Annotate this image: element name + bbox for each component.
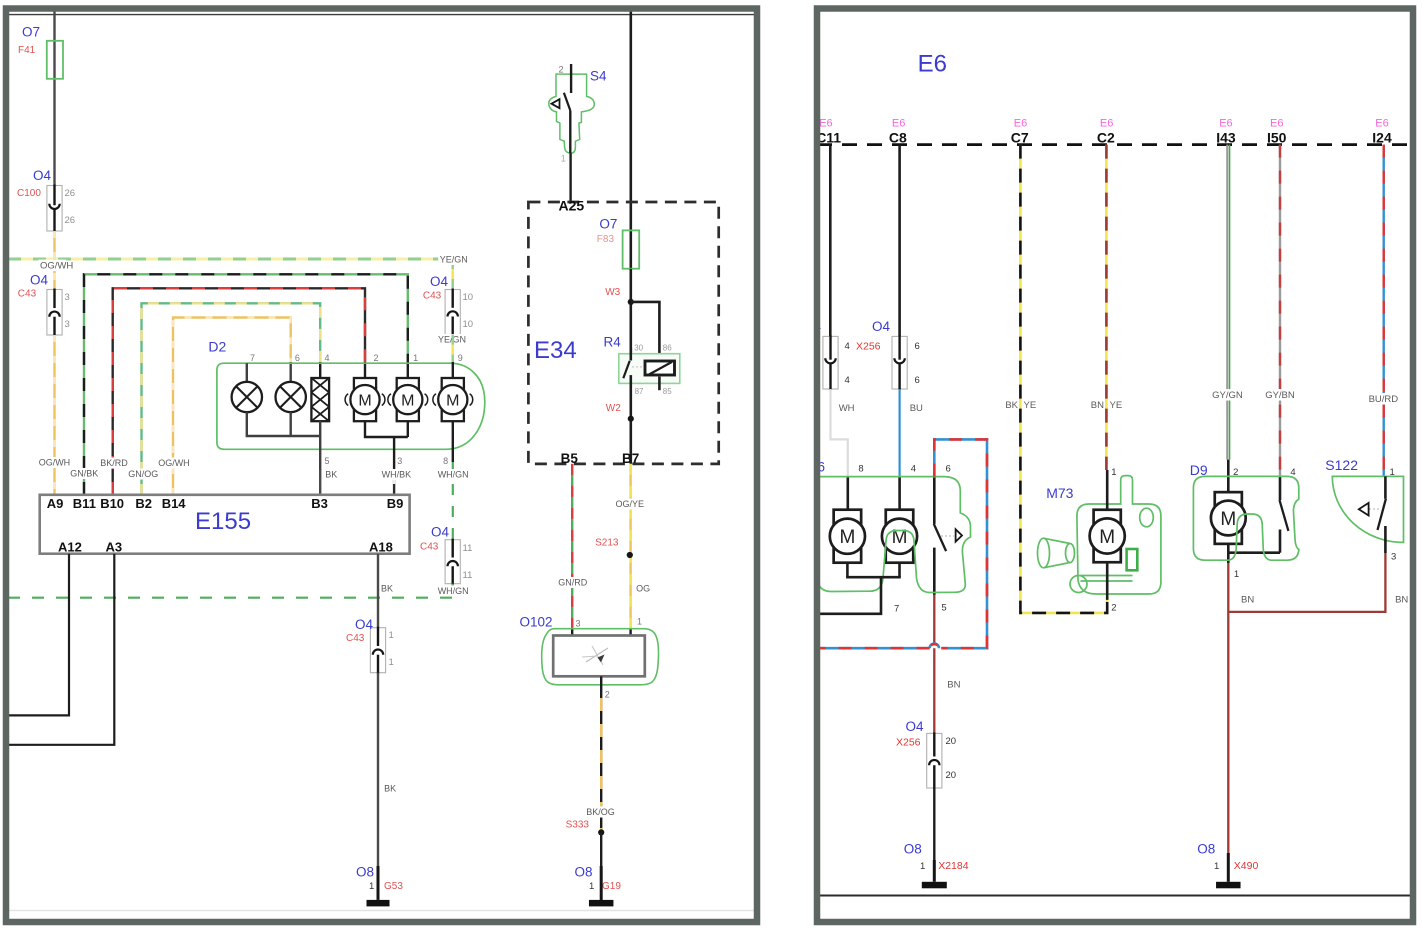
- wire A12 exit left: [8, 554, 69, 716]
- svg-text:C8: C8: [889, 130, 907, 146]
- svg-text:C43: C43: [420, 542, 439, 553]
- svg-text:GY/GN: GY/GN: [1212, 390, 1243, 401]
- svg-text:GY/BN: GY/BN: [1265, 390, 1295, 401]
- wire D2 pin 8 stub: [452, 421, 454, 462]
- switch S4 triangle marker: [552, 99, 560, 108]
- svg-text:B14: B14: [162, 496, 187, 511]
- svg-text:E6: E6: [1219, 118, 1232, 130]
- wire YE/GN corner down to connector O4 C43: [452, 259, 454, 290]
- wire WH/BK D2 pin3 to E155 B9: [393, 470, 395, 495]
- svg-text:M: M: [1099, 527, 1115, 548]
- svg-text:WH/GN: WH/GN: [438, 586, 469, 596]
- O102 pin 2 stub: [600, 676, 602, 698]
- relay switch contact: [629, 348, 632, 361]
- wire WH to comp pin 8: [831, 389, 848, 477]
- svg-text:O4: O4: [355, 617, 374, 632]
- svg-text:E6: E6: [1375, 118, 1388, 130]
- svg-text:B9: B9: [387, 496, 404, 511]
- svg-text:M73: M73: [1046, 485, 1073, 501]
- svg-text:1: 1: [389, 630, 394, 641]
- switch D9 pin 4: [1279, 476, 1282, 500]
- wire BN/YE C2 to M73 pin 1: [1105, 145, 1108, 470]
- component D2 green outline: [217, 363, 485, 449]
- svg-text:BN: BN: [947, 680, 960, 691]
- svg-text:6: 6: [295, 353, 300, 363]
- svg-text:GN/OG: GN/OG: [128, 469, 158, 479]
- svg-text:20: 20: [946, 736, 957, 747]
- svg-text:GN/BK: GN/BK: [70, 469, 98, 479]
- node W2 junction: [628, 416, 634, 422]
- svg-text:6: 6: [915, 375, 920, 386]
- wire 87 to junction W2 and B7: [629, 390, 632, 464]
- wire WH/GN connector to horizontal dashed: [452, 584, 454, 598]
- svg-text:6: 6: [946, 464, 951, 475]
- wire BK stub pin 8: [846, 477, 849, 510]
- connector O4 C43 pins 11/11: [445, 540, 460, 584]
- svg-text:85: 85: [663, 387, 672, 396]
- node S213 junction: [627, 552, 633, 558]
- wire BK to ground X2184: [933, 788, 935, 862]
- svg-text:M: M: [446, 392, 459, 409]
- motor D2 pin 2: [354, 378, 376, 421]
- wire OG/WH vertical C43 to E155 pin A9: [53, 335, 55, 495]
- connector O4 X256 pins 4/4 (left, clipped): [823, 336, 838, 389]
- svg-text:5: 5: [941, 603, 946, 614]
- svg-text:OG: OG: [636, 584, 650, 594]
- svg-text:X490: X490: [1234, 860, 1259, 872]
- wire BU/RD I24 to S122 pin 1: [1382, 145, 1384, 477]
- wire BK/OG O102 pin2 down: [600, 698, 602, 832]
- svg-text:B2: B2: [135, 496, 152, 511]
- svg-text:8: 8: [443, 456, 448, 466]
- svg-text:S122: S122: [1325, 457, 1358, 473]
- svg-text:1: 1: [589, 881, 594, 892]
- svg-text:BN: BN: [1241, 595, 1254, 606]
- svg-text:1: 1: [1111, 467, 1116, 478]
- connector O4 X256 pins 20/20: [927, 733, 942, 788]
- fuse O7 F41: [47, 41, 63, 79]
- svg-text:BK: BK: [384, 784, 396, 794]
- svg-text:YE: YE: [1024, 400, 1037, 411]
- svg-text:86: 86: [663, 344, 672, 353]
- switch arrow marker: [941, 535, 954, 537]
- svg-text:YE: YE: [1110, 400, 1123, 411]
- svg-text:M: M: [839, 527, 855, 548]
- svg-text:O4: O4: [430, 274, 449, 289]
- svg-text:I50: I50: [1267, 130, 1287, 146]
- wire OG/YE B7 to O102 pin 1: [629, 464, 631, 629]
- wire BN S122 pin3 joins D9 BN: [1228, 553, 1385, 612]
- svg-text:4: 4: [911, 464, 916, 475]
- svg-text:2: 2: [605, 690, 610, 700]
- svg-text:87: 87: [635, 387, 644, 396]
- svg-text:A25: A25: [559, 198, 585, 214]
- svg-text:C7: C7: [1011, 130, 1029, 146]
- component O102 cigarette lighter: [542, 629, 659, 685]
- svg-text:B11: B11: [73, 496, 96, 511]
- switch S4 green outline: [549, 74, 595, 153]
- wire BU/RD dashed loop around D16: [934, 439, 987, 648]
- switch S122 outline quarter disc: [1332, 476, 1403, 542]
- component D16 outline on top: [814, 477, 971, 593]
- svg-text:20: 20: [946, 770, 957, 781]
- lamp D2 pin 6: [276, 382, 306, 412]
- wire branch to relay coil 86: [631, 302, 660, 361]
- svg-text:O8: O8: [1197, 842, 1215, 857]
- svg-text:WH/BK: WH/BK: [382, 470, 412, 480]
- wire BK C8 down: [898, 145, 901, 337]
- svg-text:O4: O4: [872, 319, 891, 334]
- svg-text:WH: WH: [839, 403, 855, 414]
- svg-text:2: 2: [559, 65, 564, 75]
- svg-text:BU: BU: [910, 403, 923, 414]
- svg-text:B10: B10: [100, 496, 124, 511]
- svg-text:O4: O4: [906, 719, 925, 734]
- wire S4 pin1 to A25: [569, 153, 571, 202]
- svg-text:X256: X256: [856, 341, 881, 353]
- relay coil: [645, 361, 675, 375]
- wire OG/WH vertical x=54.5 C100 to C43: [53, 231, 55, 290]
- svg-text:B3: B3: [311, 496, 328, 511]
- svg-text:YE/GN: YE/GN: [440, 255, 468, 265]
- svg-text:E6: E6: [1270, 118, 1283, 130]
- svg-text:S4: S4: [590, 69, 607, 84]
- svg-text:A12: A12: [58, 540, 82, 555]
- wire: left panel inner top border line: [8, 14, 754, 16]
- svg-text:C43: C43: [346, 633, 365, 644]
- wire D2 lamp/resistor bottom bus to pin 5: [247, 412, 320, 436]
- svg-text:1: 1: [1390, 467, 1395, 478]
- wire GN/OG B2 loop to D2 pin 4: [142, 303, 321, 495]
- svg-text:F83: F83: [597, 234, 615, 245]
- ECU box E155: [40, 495, 410, 554]
- svg-text:3: 3: [576, 619, 581, 629]
- svg-text:E6: E6: [819, 118, 832, 130]
- connector O4 X256 pins 6/6: [892, 336, 907, 389]
- svg-text:S213: S213: [595, 538, 619, 549]
- svg-text:OG/WH: OG/WH: [39, 458, 70, 468]
- svg-text:F41: F41: [18, 45, 36, 56]
- connector O4 C43 pins 10/10: [445, 290, 460, 335]
- svg-text:D2: D2: [208, 339, 226, 355]
- svg-text:26: 26: [65, 215, 76, 226]
- switch S122 contacts: [1384, 476, 1387, 498]
- svg-text:4: 4: [845, 375, 850, 386]
- svg-text:1: 1: [561, 154, 566, 164]
- motor D9: [1227, 460, 1230, 492]
- svg-text:O8: O8: [356, 865, 374, 880]
- svg-text:8: 8: [858, 464, 863, 475]
- frame right panel: [817, 9, 1413, 923]
- label OG/WH: [39, 260, 67, 271]
- wire A3 exit left: [8, 554, 114, 745]
- svg-text:1: 1: [1234, 569, 1239, 580]
- wire BK/YE C7 to M73 pin 2: [1020, 145, 1107, 613]
- motor left in D16: [834, 510, 862, 563]
- svg-text:R4: R4: [604, 335, 622, 350]
- svg-text:M: M: [1220, 509, 1236, 530]
- svg-text:O7: O7: [22, 25, 40, 40]
- motor D2 pin 1: [397, 378, 419, 421]
- svg-text:10: 10: [463, 292, 474, 303]
- svg-text:O8: O8: [575, 865, 593, 880]
- svg-text:3: 3: [65, 319, 70, 330]
- wire motors bottom bus to pin 7 exit: [846, 563, 849, 578]
- svg-text:BN: BN: [1395, 595, 1408, 606]
- svg-text:9: 9: [458, 353, 463, 363]
- svg-text:E6: E6: [1100, 118, 1113, 130]
- svg-text:BK: BK: [381, 584, 393, 594]
- switch in D16 pin 6: [933, 477, 936, 524]
- wire BU/RD hop over BN: [930, 644, 939, 649]
- wire YE/GN connector to D2 pin 9: [452, 335, 454, 363]
- wire BK from top frame to connector C100: [53, 8, 55, 186]
- svg-text:6: 6: [915, 341, 920, 352]
- wire BK A18 down: [377, 554, 379, 628]
- wire BK main vertical from top frame: [629, 8, 632, 230]
- wire BK C11 down: [829, 145, 832, 337]
- wire GN/BK B11 loop to D2 pin 1: [84, 274, 408, 495]
- svg-text:BU/RD: BU/RD: [1369, 394, 1399, 405]
- wire: right panel inner bottom line: [820, 895, 1410, 897]
- svg-text:BK: BK: [1005, 400, 1018, 411]
- switch S122 triangle marker: [1369, 508, 1381, 510]
- svg-text:GN/RD: GN/RD: [558, 578, 588, 588]
- svg-text:3: 3: [1391, 552, 1396, 563]
- svg-text:BK/RD: BK/RD: [100, 458, 128, 468]
- wire BK A18 to ground: [377, 673, 379, 868]
- svg-text:M: M: [401, 392, 414, 409]
- wire GN/RD B5 to O102 pin 3: [571, 464, 573, 629]
- svg-text:BK/OG: BK/OG: [586, 807, 615, 817]
- wire BK/RD B10 loop to D2 pin 2: [113, 288, 365, 495]
- svg-text:1: 1: [413, 353, 418, 363]
- svg-text:O102: O102: [520, 615, 553, 630]
- svg-text:E6: E6: [1014, 118, 1027, 130]
- svg-text:7: 7: [894, 604, 899, 615]
- wire BU to comp pin 4: [898, 389, 900, 477]
- svg-text:G53: G53: [384, 881, 403, 892]
- svg-text:O4: O4: [431, 525, 450, 540]
- connector O4 C43 pins 1/1: [370, 628, 385, 673]
- svg-text:O7: O7: [599, 217, 617, 232]
- svg-text:C43: C43: [423, 291, 442, 302]
- connector O4 C43 pins 3/3: [47, 290, 62, 336]
- switch S4 contacts: [570, 64, 572, 93]
- svg-text:I24: I24: [1372, 130, 1392, 146]
- svg-text:BN: BN: [1091, 400, 1104, 411]
- wire fuse to junction W3: [629, 269, 632, 353]
- svg-text:B7: B7: [622, 451, 639, 466]
- svg-text:A3: A3: [106, 540, 123, 555]
- svg-text:C100: C100: [17, 188, 41, 199]
- svg-text:3: 3: [65, 292, 70, 303]
- svg-text:OG/WH: OG/WH: [158, 458, 190, 468]
- wire YE/GN horizontal bus y=259: [8, 258, 453, 261]
- svg-text:1: 1: [637, 617, 642, 627]
- svg-text:M: M: [358, 392, 371, 409]
- wire BK to ground G19: [600, 832, 602, 901]
- wire WH/GN pin8 to connector C43 11/11: [452, 462, 454, 540]
- wire GY/BN I50 to D9 pin 4: [1279, 145, 1281, 477]
- fuse O7 F83: [629, 230, 632, 269]
- wire BN pin 5 down: [933, 595, 935, 734]
- svg-text:W2: W2: [606, 403, 621, 414]
- svg-text:W3: W3: [605, 287, 620, 298]
- svg-text:E155: E155: [195, 508, 251, 535]
- connector O4 C100 pins 26/26: [47, 186, 62, 232]
- svg-text:S333: S333: [566, 820, 590, 831]
- wire coil 85 stub: [658, 377, 661, 391]
- svg-text:A9: A9: [47, 496, 64, 511]
- svg-text:C2: C2: [1097, 130, 1115, 146]
- relay linkage dotted: [632, 366, 644, 368]
- svg-text:5: 5: [325, 456, 330, 466]
- svg-text:O4: O4: [30, 273, 49, 288]
- svg-text:2: 2: [1111, 603, 1116, 614]
- svg-text:1: 1: [389, 657, 394, 668]
- svg-text:11: 11: [463, 543, 473, 554]
- svg-text:2: 2: [374, 353, 379, 363]
- wire D2 motor bottom bus to pin 3: [365, 421, 408, 437]
- resistor D2 pin 4: [311, 378, 329, 421]
- wire BN D9 pin1 down to ground: [1227, 563, 1229, 855]
- wire GY/GN I43 to D9 pin 2: [1226, 145, 1228, 460]
- svg-text:3: 3: [397, 456, 402, 466]
- svg-text:30: 30: [634, 344, 643, 353]
- svg-text:4: 4: [845, 341, 850, 352]
- svg-text:C43: C43: [18, 289, 37, 300]
- svg-text:G19: G19: [602, 881, 621, 892]
- wire D9 switch to motor bottom junction: [1228, 551, 1280, 554]
- wire: left panel inner bottom light line: [8, 910, 754, 912]
- svg-text:I43: I43: [1216, 130, 1236, 146]
- svg-text:7: 7: [250, 353, 255, 363]
- svg-text:X256: X256: [896, 737, 921, 749]
- svg-text:1: 1: [1214, 861, 1219, 872]
- svg-text:A18: A18: [369, 540, 393, 555]
- wire BK stub pin 4: [898, 477, 901, 510]
- svg-text:E6: E6: [892, 118, 905, 130]
- svg-text:11: 11: [463, 570, 473, 581]
- svg-text:E34: E34: [534, 337, 577, 364]
- wire BK D2 pin5 to E155 B3: [319, 470, 321, 495]
- wire WH/GN horizontal dashed y=597.7: [8, 597, 453, 599]
- motor D2 pin 9: [442, 378, 464, 421]
- svg-text:WH/GN: WH/GN: [438, 470, 469, 480]
- motor right in D16: [886, 510, 914, 563]
- svg-text:OG/WH: OG/WH: [40, 261, 73, 272]
- svg-text:BK: BK: [325, 470, 337, 480]
- node W3 junction: [628, 299, 634, 305]
- component D9 outline on top: [1193, 476, 1298, 560]
- svg-text:4: 4: [325, 353, 330, 363]
- svg-text:E6: E6: [918, 51, 947, 78]
- svg-text:1: 1: [369, 881, 374, 892]
- node S333 junction: [598, 829, 604, 835]
- M73 pin 2 stub: [1106, 562, 1109, 600]
- wire E6 dashed bus: [817, 143, 1412, 146]
- O102 icon: [586, 648, 608, 662]
- svg-text:26: 26: [65, 188, 76, 199]
- component M73 washer pump outline: [1077, 476, 1161, 594]
- svg-text:X2184: X2184: [938, 860, 969, 872]
- svg-text:OG/YE: OG/YE: [616, 499, 645, 509]
- box E34 dashed: [528, 202, 718, 464]
- wire OG/WH B14 loop to D2 pin 6: [173, 318, 291, 496]
- lamp D2 pin 7: [246, 363, 248, 382]
- svg-text:10: 10: [463, 319, 474, 330]
- svg-text:B5: B5: [561, 451, 579, 466]
- frame left panel: [6, 9, 757, 923]
- svg-text:1: 1: [920, 861, 925, 872]
- svg-text:O8: O8: [904, 842, 922, 857]
- svg-text:O4: O4: [33, 168, 52, 183]
